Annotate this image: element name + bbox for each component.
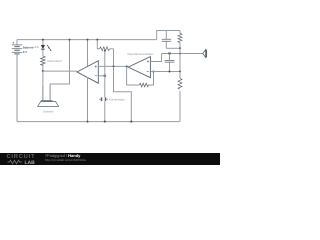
junction U2 output tip: [126, 65, 128, 67]
junction - row right end: [179, 70, 181, 72]
junction U1 V- on bottom rail: [87, 121, 89, 123]
wire LED anode: [42, 40, 44, 46]
junction C2 on mic wire: [168, 52, 170, 54]
watermark band: [0, 153, 220, 165]
wire node A down to buzzer left terminal: [42, 71, 44, 100]
svg-text:Widerstand: Widerstand: [47, 59, 62, 63]
node A junction: [42, 70, 44, 72]
resistor R3 top right: [179, 31, 181, 34]
capacitor C2 coupling: [165, 54, 175, 72]
wire top rail: [17, 39, 157, 41]
op-amp U2 Operationsverstaerker (points left): [128, 57, 150, 78]
capacitor C3 top right: [162, 31, 180, 49]
wire R3 node to - row corner: [179, 48, 181, 71]
junction feedback on - row: [152, 70, 154, 72]
svg-text:9 V: 9 V: [23, 50, 27, 54]
wire U1 V+ pin to top rail: [87, 40, 89, 66]
wire U1 + input to U2 output: [98, 65, 128, 67]
logo resistor glyph: [7, 161, 22, 165]
watermark text line 1: [45, 154, 81, 159]
junction R2 on top rail: [96, 39, 98, 41]
svg-text:Kondensator: Kondensator: [109, 98, 125, 102]
wire capacitor net vertical: [104, 50, 106, 122]
wire R2 right end down to + net: [113, 49, 115, 67]
junction U1 - input on capacitor net: [104, 75, 106, 77]
watermark text line 2: [45, 158, 86, 163]
wire node A to comparator output: [43, 70, 77, 72]
junction capacitor net on bottom rail: [104, 121, 106, 123]
svg-text:LAB: LAB: [24, 160, 35, 165]
wire to resistor R4: [179, 72, 181, 79]
microphone MIC1: [203, 50, 207, 58]
wire U1 - input: [98, 75, 104, 77]
op-amp U1 comparator (points left): [77, 61, 98, 83]
junction on U1 + wire: [112, 65, 114, 67]
wire buzzer right terminal riser to top rail: [50, 40, 69, 101]
wire battery negative to bottom rail: [16, 54, 18, 122]
junction U1 V+ on top rail: [87, 39, 89, 41]
svg-text:Summer: Summer: [43, 109, 54, 113]
wire resistor to node A: [42, 64, 44, 71]
wire bottom rail: [17, 121, 180, 123]
wire U1 V- pin to bottom rail: [87, 77, 89, 122]
wire R4 to bottom rail: [179, 91, 181, 122]
junction C2 on - row: [168, 70, 170, 72]
capacitor C1 Kondensator: [99, 97, 108, 101]
wire feedback resistor to inverting input: [148, 72, 154, 86]
svg-text:Operationsverstärker: Operationsverstärker: [127, 52, 153, 56]
potentiometer R2: [97, 40, 113, 52]
wire mic node horizontal: [162, 53, 203, 55]
resistor R5 feedback: [139, 83, 148, 87]
LED D1: [41, 45, 51, 52]
wire down from + net junction to ground jog: [114, 66, 132, 121]
wire U2 + input to mic node: [151, 54, 162, 62]
junction R3 column on mic wire: [179, 52, 181, 54]
junction LED on top rail: [42, 39, 44, 41]
buzzer SP1 Summer: [38, 86, 59, 106]
battery B1: [12, 40, 22, 54]
junction buzzer riser on top rail: [69, 39, 71, 41]
CircuitLab logo: [7, 155, 36, 160]
resistor R1 Widerstand: [41, 56, 46, 66]
resistor R4 right: [178, 78, 182, 89]
wire top step to RC pair: [157, 31, 180, 40]
svg-text:LED: LED: [34, 45, 39, 49]
wire U2 - input row: [151, 71, 180, 73]
junction R3 and C3 bottom: [179, 47, 181, 49]
wire LED cathode to resistor: [42, 49, 44, 56]
svg-text:Batterie: Batterie: [23, 45, 34, 49]
junction ground jog on bottom rail: [130, 121, 132, 123]
wire U2 output down to feedback: [127, 67, 140, 86]
